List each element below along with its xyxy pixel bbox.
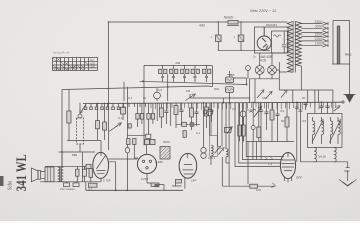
cathode box T2 [147, 183, 164, 190]
capacitor C elko 2 [238, 22, 244, 51]
mains plug arrow [344, 95, 356, 103]
svg-text:0,5: 0,5 [280, 109, 285, 113]
resistor small x120 [121, 103, 126, 120]
svg-text:1,5: 1,5 [268, 162, 273, 166]
wire heater feed 3 [243, 103, 283, 160]
wire IF supply bus [144, 64, 213, 66]
svg-text:125V: 125V [315, 37, 323, 41]
resistor AVC [270, 103, 274, 142]
decoupling RC pair 5 [203, 65, 211, 82]
extra grid verticals [157, 103, 171, 126]
wire main HT bus [83, 102, 342, 103]
tube T1 electrodes [96, 152, 105, 173]
resistor RF d [174, 103, 178, 128]
heater rail [279, 89, 333, 91]
prüf terminals [64, 182, 80, 187]
trimmer comb [84, 103, 145, 110]
coil stack ant1 [314, 148, 316, 163]
tube AF7 T1 envelope [93, 152, 109, 178]
resistor T3 grid [183, 131, 186, 138]
tube RES T4 envelope [280, 153, 295, 179]
tap 110V [301, 39, 328, 42]
anode row T3 [176, 122, 200, 126]
capacitor RF c [165, 103, 169, 124]
wire mains top right [333, 20, 350, 22]
selector bar [337, 26, 340, 64]
potentiometer tone arrow [254, 107, 262, 118]
svg-text:+: + [234, 36, 236, 40]
capacitor speaker [83, 166, 87, 182]
svg-text:Ua Ug Uk mA: Ua Ug Uk mA [53, 51, 70, 55]
resistor under T1 [86, 182, 97, 191]
tap 220V [301, 22, 328, 25]
coil stack ant2 [334, 148, 336, 162]
wire lamps to heater rail [276, 70, 279, 90]
wire T1 top feed [100, 141, 102, 153]
wire mains bottom right [332, 63, 350, 65]
wire speaker bottom bus [40, 181, 101, 183]
svg-text:Netz 220V ~ 12: Netz 220V ~ 12 [250, 9, 277, 13]
wire fuse drop [250, 79, 256, 103]
wire AVC line [62, 66, 213, 90]
capacitor pad a [304, 103, 308, 110]
coil small x127 [125, 87, 129, 191]
svg-text:110V: 110V [315, 41, 323, 45]
transformer primary winding [287, 22, 292, 73]
coil pair above T3 [201, 148, 206, 159]
wire y139 mid right [246, 141, 294, 143]
svg-text:1M: 1M [262, 96, 267, 100]
coil L1 [313, 117, 315, 144]
tap 150V [301, 31, 328, 34]
svg-text:40Ω: 40Ω [199, 24, 206, 28]
wire cathode T4 [222, 157, 275, 188]
switch arrow b [266, 91, 273, 99]
switch arrow c [281, 90, 287, 98]
transformer core [293, 21, 295, 73]
svg-text:100: 100 [256, 188, 261, 192]
tube T3 electrodes [183, 153, 194, 174]
coil circles T3 grid [203, 109, 213, 135]
decoupling RC pair 3 [181, 65, 189, 82]
svg-text:0,1: 0,1 [88, 187, 93, 191]
svg-text:50: 50 [281, 119, 285, 123]
svg-text:−2≥0: −2≥0 [90, 66, 96, 69]
tube T1 pin [100, 178, 102, 181]
potentiometer reaction [225, 126, 233, 133]
scan mark left edge [0, 176, 4, 186]
svg-text:42B: 42B [229, 73, 234, 77]
svg-text:0,5: 0,5 [158, 88, 163, 92]
resistor grid T4 [285, 103, 289, 142]
primary feed wires [279, 22, 287, 72]
resistor Netzdrossel [227, 20, 239, 25]
svg-text:0,2: 0,2 [232, 107, 237, 111]
svg-text:2x0,1: 2x0,1 [208, 156, 216, 160]
capacitor marks left verticals [295, 107, 303, 112]
coil det circle [240, 103, 246, 142]
wire transformer top lead [61, 152, 63, 167]
svg-text:1V99: 1V99 [141, 177, 148, 181]
resistor pair above T2 left [127, 139, 138, 159]
voltage table [53, 58, 98, 71]
wire y140 left [67, 140, 101, 142]
svg-text:30: 30 [302, 96, 306, 100]
capacitor pad c [326, 103, 330, 114]
component mid low [146, 134, 151, 138]
svg-text:0,5: 0,5 [302, 119, 307, 123]
svg-text:5 70P: 5 70P [103, 179, 111, 183]
tube T4 electrodes [282, 153, 295, 171]
resistor RF f [205, 103, 209, 128]
wire T1 to T2 [109, 158, 138, 160]
wire y98 segment [190, 94, 250, 103]
dial lamp 1 [255, 53, 264, 79]
svg-text:0,1: 0,1 [128, 96, 133, 100]
wire heater feed 4 [246, 103, 284, 157]
wire leads above T3 [204, 103, 227, 149]
capacitor pad b [320, 103, 324, 114]
tube RENS T3 envelope [179, 153, 197, 178]
speaker field coil box [45, 167, 54, 182]
wire bottom of filter [218, 50, 270, 52]
T2 cathode lead [146, 174, 148, 183]
wire bottom rail [86, 189, 183, 191]
transformer secondary winding [296, 22, 302, 67]
bus connection stubs [151, 102, 336, 110]
bandswitch box [210, 136, 217, 157]
svg-text:5000: 5000 [163, 140, 170, 144]
wire bottom right [300, 161, 347, 163]
switch arrow a [257, 90, 264, 98]
svg-text:L4P: L4P [191, 179, 196, 183]
grid feeds T4 [253, 142, 273, 160]
svg-text:100: 100 [72, 153, 77, 157]
resistor RF c [160, 103, 164, 128]
speaker cone [31, 168, 45, 182]
svg-text:341 WL: 341 WL [14, 154, 30, 191]
coil right of T3 [211, 145, 213, 165]
wire det to output [247, 142, 249, 185]
IF coil hatched right of T2 [160, 147, 170, 160]
resistor in box [274, 31, 287, 53]
rectifier tube RGN [257, 27, 271, 50]
resistor R cathode1 [96, 103, 100, 140]
grid cap box T1 [82, 152, 91, 182]
svg-text:0,1: 0,1 [118, 116, 123, 120]
antenna coil box [308, 114, 343, 148]
coil L3 [331, 117, 333, 144]
wire right verticals to antenna coils [297, 103, 301, 162]
svg-text:500: 500 [214, 87, 219, 91]
resistor speaker a [76, 166, 79, 182]
squiggle caps [250, 109, 256, 112]
selector thin line [332, 21, 334, 65]
resistor RF e [190, 103, 194, 130]
variometer arrows [312, 119, 341, 142]
wire vertical x124 [123, 82, 125, 101]
capacitor det b [265, 103, 269, 130]
box above T2 [145, 139, 155, 144]
trimmer pair A [136, 103, 144, 127]
coil osc circle [154, 88, 161, 101]
dial lamp 2 [268, 53, 277, 79]
title text Saba 341 WL [7, 154, 30, 191]
wave switch arrows [215, 146, 225, 155]
resistor det pair [238, 103, 245, 142]
decoupling RC pair 1 [159, 65, 167, 82]
capacitor RF f [210, 103, 214, 122]
svg-text:50: 50 [143, 96, 147, 100]
tube T4 pins [285, 177, 292, 183]
switch blob right [334, 106, 340, 111]
svg-text:0,1: 0,1 [344, 169, 349, 173]
box below left T3 [172, 179, 182, 186]
potentiometer arrow [109, 123, 122, 132]
tube T2 top lead [145, 145, 147, 155]
tube T3 pin [184, 178, 186, 189]
svg-text:Saba: Saba [7, 180, 14, 190]
svg-text:2·1BF: 2·1BF [155, 160, 163, 164]
capacitor C elko 1 [216, 22, 222, 51]
output transformer core [60, 167, 61, 182]
svg-text:0,1: 0,1 [196, 131, 201, 135]
wire screen bus [140, 81, 247, 84]
capacitor RF e [195, 103, 199, 126]
wire heater feed 2 [239, 103, 281, 163]
svg-text:2000: 2000 [315, 25, 322, 29]
svg-text:150V: 150V [315, 33, 323, 37]
capacitor RF d [180, 103, 184, 124]
wire left long vertical [61, 90, 63, 167]
svg-text:0,25: 0,25 [247, 108, 253, 112]
wire vertical left of IF bus [143, 65, 145, 145]
coil L2 [322, 117, 324, 144]
wire y152 left [59, 151, 96, 153]
coil small det [251, 103, 255, 142]
svg-text:Netz: Netz [345, 53, 352, 57]
svg-text:220V: 220V [315, 20, 323, 24]
box on x128 [128, 124, 131, 128]
resistor R grid1 [103, 103, 107, 140]
decoupling RC pair 4 [191, 65, 199, 82]
switch arrow mid [186, 94, 196, 101]
wire x167 vertical [167, 74, 169, 101]
tap 125V [301, 35, 328, 38]
mains right rail [349, 21, 351, 95]
wire T1 anode out [109, 162, 116, 191]
IF transformer winding A [225, 75, 233, 83]
svg-text:2xV: 2xV [296, 176, 303, 180]
antenna symbol [339, 162, 356, 186]
coil L4 [338, 117, 340, 144]
wire mains top line [109, 21, 288, 23]
wire heater feed 1 [235, 103, 281, 167]
svg-text:2M: 2M [186, 89, 191, 93]
svg-text:Netzdr.: Netzdr. [224, 16, 234, 20]
decoupling RC pair 2 [170, 65, 178, 82]
wire speaker top bus [45, 165, 86, 167]
wire IFT leads [230, 71, 247, 103]
output transformer primary [58, 167, 60, 182]
switch arrow at bus start [80, 105, 86, 114]
wire long vertical from corner [108, 22, 110, 150]
fuse [246, 66, 251, 79]
wire y135 segment [127, 134, 146, 136]
svg-text:4,05: 4,05 [260, 59, 266, 63]
svg-text:0,4 6,3 4 2 1 5 3: 0,4 6,3 4 2 1 5 3 [54, 68, 72, 71]
small labels [60, 61, 349, 192]
capacitor coupling [276, 103, 280, 142]
svg-text:3x0,05: 3x0,05 [318, 155, 326, 159]
resistor AVC left [67, 89, 71, 140]
svg-text:RGN354: RGN354 [266, 23, 277, 27]
tap 0V [301, 44, 328, 47]
power labels [53, 9, 352, 71]
coil x226 [226, 103, 229, 187]
wire under lamps [250, 78, 280, 80]
wire coilbox feeds [315, 90, 333, 114]
svg-text:Prüf. Lautspr.: Prüf. Lautspr. [60, 187, 76, 191]
trimmer pair B [147, 103, 155, 134]
output transformer secondary [61, 167, 63, 182]
tube T2 electrodes [142, 160, 144, 162]
potentiometer volume [77, 103, 84, 152]
resistor det single [257, 103, 261, 142]
heater rail drops [293, 66, 319, 103]
tap 200V [301, 27, 328, 30]
svg-text:+: + [211, 36, 213, 40]
IF transformer winding B [225, 87, 233, 93]
box speaker c [89, 169, 93, 182]
svg-text:4Ω: 4Ω [90, 58, 93, 62]
tube EB T2 envelope [137, 154, 156, 173]
svg-text:4xB: 4xB [175, 61, 180, 65]
rectifier enclosure box [255, 27, 289, 53]
capacitor det a [259, 103, 263, 142]
